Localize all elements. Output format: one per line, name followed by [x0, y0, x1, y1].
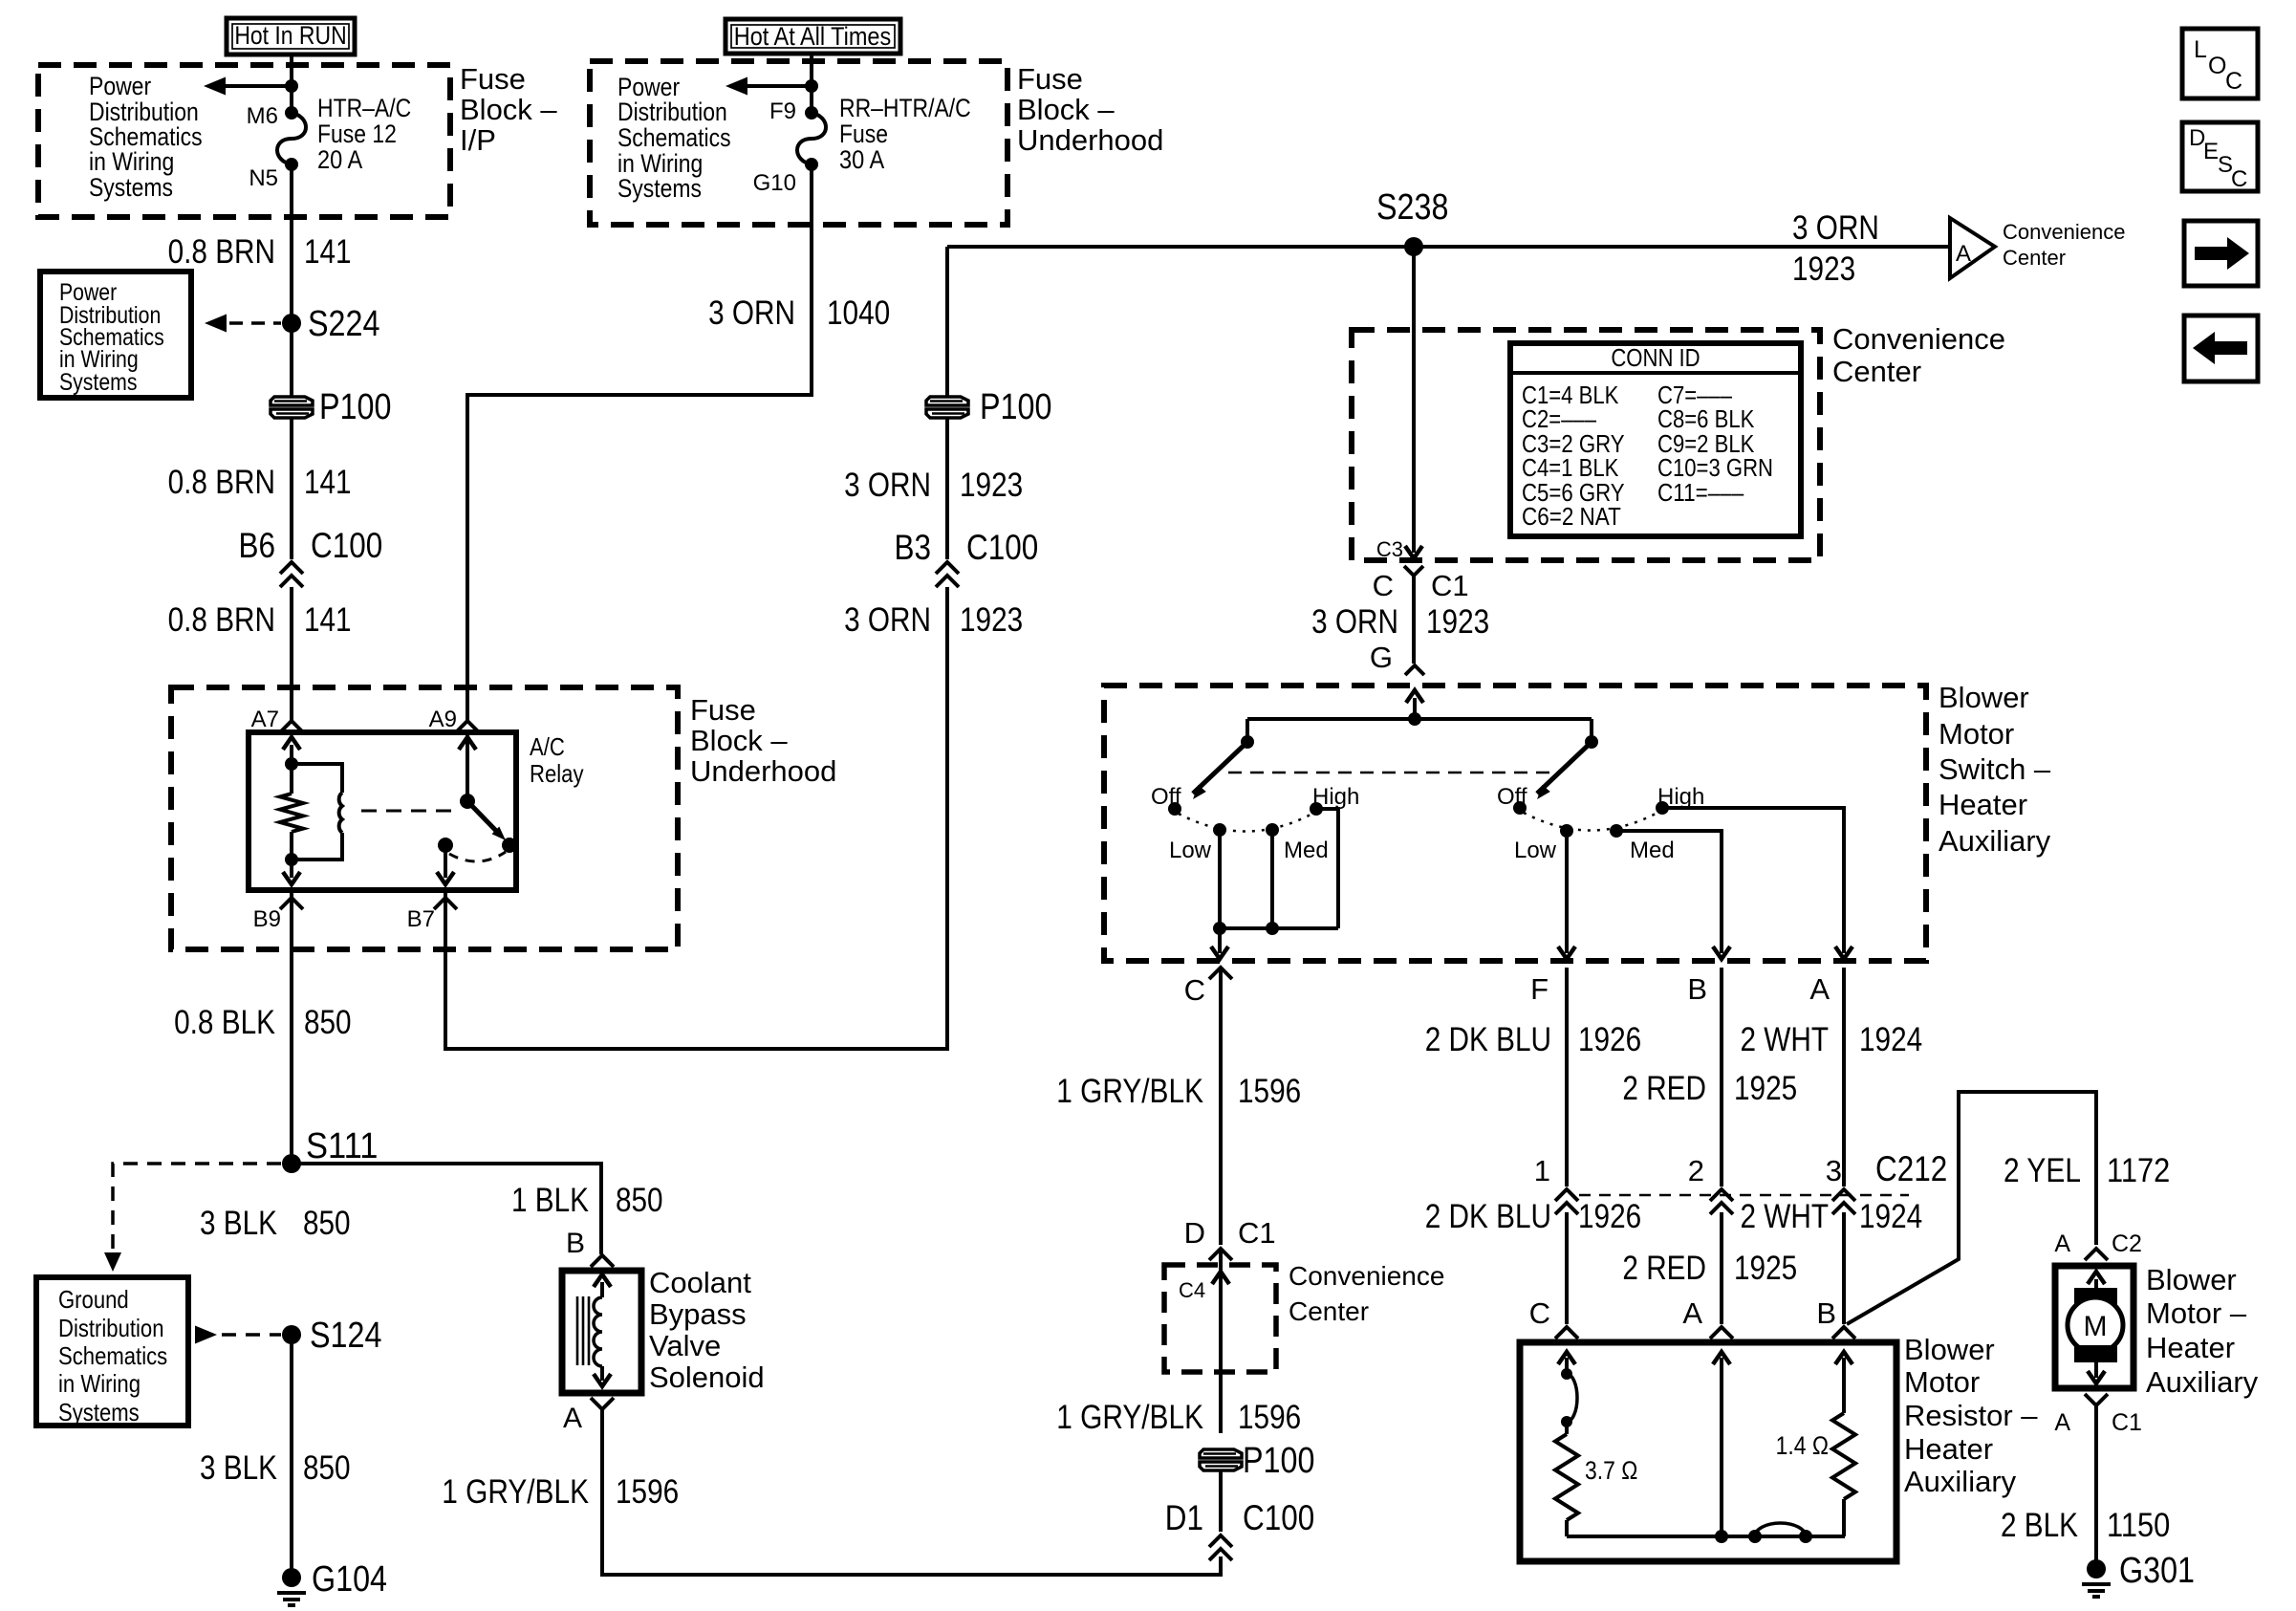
wire: C212-3 to resistor B [1842, 1212, 1846, 1324]
svg-text:2: 2 [1688, 1154, 1704, 1187]
svg-text:Heater: Heater [1904, 1432, 1993, 1466]
motor brush upper [2074, 1288, 2117, 1305]
pin B6 / connector C100 label [239, 526, 383, 565]
svg-text:N5: N5 [249, 165, 278, 191]
svg-text:1596: 1596 [616, 1473, 679, 1511]
svg-text:1 GRY/BLK: 1 GRY/BLK [1056, 1073, 1203, 1110]
motor armature M [2068, 1297, 2123, 1353]
svg-text:S238: S238 [1376, 187, 1448, 228]
pin label C3 [1376, 537, 1403, 561]
svg-text:A: A [1809, 972, 1830, 1006]
svg-text:D: D [1184, 1216, 1205, 1250]
right Med contact [1610, 824, 1623, 838]
power label box: Hot In RUN [227, 18, 355, 54]
svg-text:Block –: Block – [460, 93, 557, 126]
relay pin B7 arrow [437, 845, 454, 884]
svg-text:2 WHT: 2 WHT [1741, 1198, 1830, 1235]
svg-text:1925: 1925 [1734, 1070, 1797, 1107]
svg-text:1.4 Ω: 1.4 Ω [1776, 1431, 1829, 1460]
label S224 [308, 304, 379, 344]
blower motor box [2055, 1266, 2134, 1388]
svg-text:C4: C4 [1179, 1278, 1205, 1302]
svg-text:2 RED: 2 RED [1622, 1070, 1706, 1107]
node: feed junction underhood [805, 79, 818, 93]
wire: P100 to C100 [290, 418, 293, 559]
svg-text:850: 850 [304, 1004, 352, 1041]
svg-text:Coolant: Coolant [649, 1266, 751, 1299]
terminal N5 dot [285, 158, 298, 171]
wire label 3 ORN 1923 (below C100) [844, 601, 1023, 639]
label P100 (left) [319, 387, 391, 427]
wire: C212-2 to resistor A [1720, 1212, 1723, 1324]
svg-text:Auxiliary: Auxiliary [1939, 824, 2051, 858]
left Low wire [1218, 830, 1222, 928]
pin B3 / connector C100 label [895, 528, 1039, 567]
note: Power Distribution Schematics in Wiring Systems (fuse block I/P) [89, 72, 203, 202]
svg-text:Motor: Motor [1939, 717, 2014, 751]
svg-text:Power: Power [89, 72, 151, 100]
left bar node 1 [1213, 922, 1226, 935]
svg-text:C1: C1 [1431, 569, 1469, 602]
label P100 (bottom) [1243, 1441, 1314, 1481]
svg-text:Med: Med [1630, 838, 1675, 863]
right position arc [1524, 813, 1657, 831]
component label: Coolant Bypass Valve Solenoid [649, 1266, 765, 1394]
resistor bottom rail [1567, 1535, 1845, 1538]
svg-text:P100: P100 [1243, 1441, 1314, 1481]
resistor pin A wire [1713, 1352, 1730, 1536]
wire: resistor B to blower motor 2 YEL [1847, 1092, 2096, 1324]
svg-text:E: E [2203, 139, 2219, 164]
wire: switch F to C212-1 [1565, 968, 1569, 1186]
pin label A (switch) [1809, 972, 1830, 1006]
right pivot dot [1585, 735, 1598, 749]
connector C212 chevrons B [1710, 1189, 1733, 1214]
svg-text:P100: P100 [980, 387, 1051, 427]
svg-text:Low: Low [1169, 838, 1212, 863]
svg-text:C2: C2 [2112, 1230, 2142, 1257]
svg-text:Systems: Systems [89, 173, 173, 202]
dashed reference arrow to S124 [195, 1326, 281, 1344]
wire label 3 ORN 1923 (above C100) [844, 467, 1023, 504]
svg-text:Heater: Heater [2146, 1331, 2235, 1364]
wire label 2 DK BLU 1926 (upper) [1425, 1021, 1642, 1058]
right High wire (A) [1662, 808, 1852, 959]
svg-text:Fuse: Fuse [690, 693, 756, 727]
note: Power Distribution Schematics in Wiring Systems (underhood) [617, 73, 731, 203]
solenoid core bars [577, 1296, 589, 1365]
connector chevron B9 [280, 898, 303, 909]
svg-text:Systems: Systems [59, 369, 138, 396]
svg-text:Auxiliary: Auxiliary [2146, 1365, 2259, 1399]
resistor thermal limiter [1561, 1368, 1577, 1427]
pin label A9 [429, 707, 457, 732]
left pivot dot [1241, 735, 1254, 749]
label S238 [1376, 187, 1448, 228]
pin C / connector C1 label [1373, 569, 1469, 602]
relay coil bottom node [285, 853, 298, 866]
right Low wire (F) [1558, 831, 1575, 959]
wire: N5 down to S224 [290, 164, 293, 323]
svg-text:0.8 BLK: 0.8 BLK [174, 1004, 275, 1041]
svg-text:3.7 Ω: 3.7 Ω [1585, 1456, 1637, 1485]
svg-text:I/P: I/P [460, 123, 496, 157]
svg-text:Convenience: Convenience [2003, 220, 2125, 244]
svg-text:1 BLK: 1 BLK [511, 1182, 589, 1219]
svg-text:1925: 1925 [1734, 1250, 1797, 1287]
right pivot stub [1590, 719, 1593, 742]
svg-text:3 ORN: 3 ORN [708, 294, 795, 332]
wire: switch A to C212-3 [1842, 968, 1846, 1186]
conn id rows left [1522, 381, 1625, 531]
grommet P100 (bottom) [1200, 1449, 1242, 1470]
label Low (left) [1169, 838, 1212, 863]
relay switch dashed throw arc [449, 852, 506, 861]
left High contact [1310, 802, 1323, 816]
svg-text:Auxiliary: Auxiliary [1904, 1465, 2017, 1498]
wire label 1923 (convenience center feed) [1792, 250, 1855, 288]
svg-text:C1: C1 [2112, 1409, 2142, 1436]
connector chevron D C1 [1209, 1249, 1232, 1260]
label Med (right) [1630, 838, 1675, 863]
wire: C100 riser to S238 bus [945, 247, 949, 397]
svg-text:Bypass: Bypass [649, 1297, 747, 1331]
box label: Fuse Block - Underhood [690, 693, 836, 788]
svg-text:Block –: Block – [690, 724, 788, 757]
right Off contact [1513, 801, 1527, 815]
svg-text:1923: 1923 [1426, 603, 1489, 641]
wire: Hot At All Times to fuse [810, 54, 813, 113]
svg-text:B7: B7 [407, 906, 435, 932]
wire: S224 to P100 [290, 323, 293, 397]
terminal M6 dot [285, 106, 298, 120]
svg-text:P100: P100 [319, 387, 391, 427]
svg-text:0.8 BRN: 0.8 BRN [168, 233, 275, 271]
svg-text:Fuse: Fuse [460, 62, 526, 96]
svg-text:3 ORN: 3 ORN [844, 601, 931, 639]
svg-text:Motor –: Motor – [2146, 1296, 2247, 1330]
wire label 3 BLK 850 (upper) [200, 1205, 351, 1242]
grommet P100 (middle) [926, 397, 968, 418]
svg-text:S111: S111 [306, 1126, 378, 1166]
wire: C212-1 to resistor C [1565, 1212, 1569, 1324]
pin label F (switch) [1530, 972, 1549, 1006]
convenience center C4 dashed box [1164, 1265, 1276, 1372]
svg-text:A: A [2054, 1409, 2070, 1436]
connector chevron B solenoid [591, 1255, 614, 1267]
relay resistor element [280, 764, 303, 860]
label High (left) [1312, 784, 1359, 810]
left pivot stub [1245, 719, 1249, 742]
svg-text:C11=–––: C11=––– [1657, 478, 1744, 507]
convenience center dashed box [1352, 330, 1820, 560]
wire: S238 horizontal bus [947, 245, 1950, 249]
wire label 1 BLK 850 [511, 1182, 663, 1219]
switch gang dashed link [1228, 772, 1556, 774]
wire: Hot In RUN to fuse 12 [290, 54, 293, 113]
pin A / connector C1 label (motor) [2054, 1409, 2142, 1436]
svg-text:Ground: Ground [58, 1285, 129, 1314]
svg-text:L: L [2194, 36, 2207, 63]
fuse F12 HTR-A/C symbol [277, 113, 306, 164]
svg-text:Blower: Blower [1939, 681, 2029, 714]
svg-text:1: 1 [1534, 1154, 1550, 1187]
annotation: Convenience Center (arrow) [2003, 220, 2125, 270]
switch feed arrow [1406, 690, 1423, 719]
svg-text:Hot At All Times: Hot At All Times [734, 22, 892, 51]
pin label C4 [1179, 1278, 1205, 1302]
conn id rows right [1657, 381, 1773, 507]
nav icon forward arrow [2184, 221, 2258, 286]
label S111 [306, 1126, 378, 1166]
svg-text:2 DK BLU: 2 DK BLU [1425, 1021, 1551, 1058]
wire label 2 WHT 1924 (upper) [1741, 1021, 1923, 1058]
wire label 3 ORN 1040 [708, 294, 890, 332]
reference arrow (underhood) [726, 77, 812, 96]
label S124 [310, 1316, 381, 1356]
pin label B9 [253, 906, 281, 932]
svg-text:1926: 1926 [1578, 1198, 1641, 1235]
svg-text:in Wiring: in Wiring [89, 147, 174, 176]
connector chevron B7 [434, 898, 457, 909]
wire: P100 to D1 C100 [1219, 1470, 1223, 1532]
terminal F9 dot [805, 106, 818, 120]
component label: A/C Relay [530, 732, 584, 788]
svg-text:Systems: Systems [58, 1398, 140, 1426]
left Med wire [1270, 830, 1274, 928]
left common bar [1220, 926, 1338, 930]
svg-text:850: 850 [616, 1182, 663, 1219]
wire label 2 RED 1925 (upper) [1622, 1070, 1797, 1107]
svg-text:HTR–A/C: HTR–A/C [317, 94, 411, 122]
wire label 3 ORN 1923 (to switch) [1311, 603, 1489, 641]
pin label B (resistor) [1816, 1296, 1836, 1330]
svg-text:B: B [1816, 1296, 1836, 1330]
svg-text:Off: Off [1497, 784, 1527, 810]
connector C212 dashed link [1579, 1194, 1909, 1197]
svg-text:141: 141 [304, 233, 352, 271]
motor pin A arrow [2088, 1272, 2105, 1296]
wire: relay B9 down to S111 [290, 890, 293, 1164]
node: feed junction fuse block I/P [285, 79, 298, 93]
svg-text:C100: C100 [311, 526, 382, 565]
svg-text:C1: C1 [1238, 1216, 1276, 1250]
pin label G10 [753, 170, 796, 196]
svg-text:Block –: Block – [1017, 93, 1115, 126]
rail node A [1715, 1530, 1728, 1543]
wire: S238 into convenience center C3 [1405, 247, 1422, 558]
ground G104 [277, 1568, 306, 1605]
svg-text:C6=2 NAT: C6=2 NAT [1522, 502, 1621, 531]
svg-text:Center: Center [1832, 355, 1921, 388]
svg-text:C100: C100 [1243, 1498, 1314, 1537]
svg-text:1924: 1924 [1859, 1021, 1922, 1058]
svg-text:Schematics: Schematics [617, 123, 731, 152]
svg-text:D1: D1 [1165, 1498, 1203, 1537]
terminal G10 dot [805, 158, 818, 171]
wire: C100 to relay A7 [290, 587, 293, 720]
value label: HTR-A/C Fuse 12 20 A [317, 94, 411, 174]
box label: Blower Motor Switch - Heater Auxiliary [1939, 681, 2051, 858]
resistor element 1.4 ohm [1832, 1413, 1855, 1536]
svg-text:30 A: 30 A [839, 145, 884, 174]
pin D / connector C1 label [1184, 1216, 1276, 1250]
resistor element 3.7 ohm [1555, 1422, 1578, 1536]
wire: solenoid A to C100 D1 [602, 1409, 1221, 1575]
svg-text:C100: C100 [966, 528, 1038, 567]
svg-text:Off: Off [1151, 784, 1181, 810]
pin label 2 (C212) [1688, 1154, 1704, 1187]
relay switch fixed contact dot [438, 838, 453, 853]
wire label 2 BLK 1150 [2001, 1507, 2170, 1544]
svg-text:C: C [1373, 569, 1394, 602]
svg-text:C: C [1184, 973, 1205, 1007]
reference box: Ground Distribution Schematics in Wiring Systems [36, 1277, 188, 1426]
connector chevron resistor C [1555, 1327, 1578, 1339]
svg-text:O: O [2208, 53, 2226, 79]
svg-text:Blower: Blower [2146, 1263, 2237, 1296]
connector chevron A9 [456, 721, 479, 732]
power label box: Hot At All Times [726, 19, 900, 54]
svg-text:M6: M6 [247, 103, 278, 129]
svg-text:1040: 1040 [827, 294, 890, 332]
svg-text:1596: 1596 [1238, 1399, 1301, 1436]
motor brush lower [2074, 1345, 2117, 1362]
left bar node 2 [1266, 922, 1279, 935]
svg-text:1926: 1926 [1578, 1021, 1641, 1058]
label Off (left) [1151, 784, 1181, 810]
svg-text:20 A: 20 A [317, 145, 362, 174]
svg-text:1923: 1923 [1792, 250, 1855, 288]
connector fork A solenoid [591, 1398, 614, 1409]
svg-text:High: High [1657, 784, 1704, 810]
svg-text:G: G [1370, 641, 1393, 674]
pin A / connector C2 label (motor) [2054, 1230, 2142, 1257]
pin label 1 (C212) [1534, 1154, 1550, 1187]
pin label 3 (C212) [1826, 1154, 1842, 1187]
pin label F9 [769, 98, 796, 124]
svg-text:C3: C3 [1376, 537, 1403, 561]
svg-text:850: 850 [303, 1449, 351, 1487]
svg-text:Low: Low [1514, 838, 1557, 863]
svg-text:Med: Med [1284, 838, 1329, 863]
connector chevron A7 [280, 721, 303, 732]
svg-text:Relay: Relay [530, 759, 584, 788]
wire label 2 RED 1925 (lower) [1622, 1250, 1797, 1287]
splice S124 [282, 1325, 301, 1344]
svg-text:Underhood: Underhood [690, 754, 836, 788]
nav icon DESC [2182, 122, 2258, 192]
fuse block underhood top dashed box [590, 61, 1007, 225]
svg-text:Schematics: Schematics [58, 1341, 167, 1370]
pin label A (resistor) [1682, 1296, 1702, 1330]
connector chevron C out [1209, 968, 1232, 979]
ground G301 [2082, 1559, 2111, 1597]
relay pin A7 arrow [283, 737, 300, 764]
svg-text:RR–HTR/A/C: RR–HTR/A/C [839, 94, 971, 122]
motor pin A2 arrow [2088, 1354, 2105, 1383]
pin label G [1370, 641, 1393, 674]
rail jumper arc [1755, 1523, 1806, 1536]
splice S111 [282, 1154, 301, 1173]
left Low contact [1213, 823, 1226, 837]
svg-text:B: B [1687, 972, 1707, 1006]
svg-text:Center: Center [2003, 246, 2066, 270]
svg-text:Convenience: Convenience [1289, 1261, 1444, 1291]
solenoid pin B arrow [594, 1274, 611, 1297]
wire: C1 to switch G [1412, 574, 1416, 664]
svg-text:S124: S124 [310, 1316, 381, 1356]
wire: switch B to C212-2 [1720, 968, 1723, 1186]
wire label 2 WHT 1924 (lower) [1741, 1198, 1923, 1235]
svg-text:2 YEL: 2 YEL [2004, 1152, 2081, 1189]
fuse RR-HTR/A/C symbol [797, 113, 826, 164]
value label 3.7 ohm [1585, 1456, 1637, 1485]
label High (right) [1657, 784, 1704, 810]
svg-text:A/C: A/C [530, 732, 565, 761]
svg-text:F9: F9 [769, 98, 796, 124]
relay coil branch [292, 764, 342, 860]
svg-text:Fuse 12: Fuse 12 [317, 120, 397, 148]
connector chevron resistor A [1710, 1327, 1733, 1339]
box label: Fuse Block - Underhood (top) [1017, 62, 1163, 157]
svg-text:3: 3 [1826, 1154, 1842, 1187]
resistor pin C arrow [1558, 1352, 1575, 1374]
svg-text:G10: G10 [753, 170, 796, 196]
svg-text:A: A [1956, 241, 1971, 267]
svg-text:B9: B9 [253, 906, 281, 932]
svg-text:2 BLK: 2 BLK [2001, 1507, 2078, 1544]
box label: Blower Motor Resistor - Heater Auxiliary [1904, 1333, 2038, 1498]
svg-text:High: High [1312, 784, 1359, 810]
svg-text:Fuse: Fuse [839, 120, 888, 148]
relay actuating dashed link [361, 810, 461, 813]
pin label B7 [407, 906, 435, 932]
connector chevron G [1405, 665, 1424, 675]
svg-text:Systems: Systems [617, 174, 702, 203]
blower motor switch dashed box [1104, 686, 1926, 961]
connector fork C C1 [1404, 566, 1423, 576]
wire: S111 to coolant solenoid B [292, 1164, 601, 1254]
svg-text:C: C [1529, 1296, 1550, 1330]
svg-text:141: 141 [304, 464, 352, 501]
svg-text:Valve: Valve [649, 1329, 721, 1362]
switch feed rail [1247, 717, 1592, 721]
relay coil top node [285, 757, 298, 771]
svg-text:B: B [566, 1228, 585, 1259]
left position arc [1179, 814, 1312, 832]
svg-text:2 RED: 2 RED [1622, 1250, 1706, 1287]
svg-text:in Wiring: in Wiring [58, 1369, 141, 1398]
svg-text:1923: 1923 [960, 601, 1023, 639]
svg-text:141: 141 [304, 601, 352, 639]
svg-text:Motor: Motor [1904, 1365, 1980, 1399]
connector chevron motor C2 [2085, 1249, 2108, 1260]
nav icon back arrow [2184, 316, 2258, 381]
dashed reference arrow from S224 [205, 315, 281, 333]
svg-text:Distribution: Distribution [58, 1314, 164, 1342]
grommet P100 (left) [271, 397, 313, 418]
fuse block I/P dashed box [38, 65, 450, 217]
connector C100 double chevron (left) [280, 562, 303, 587]
wire label 3 ORN (convenience center feed) [1792, 209, 1879, 247]
relay switch feed from A9 [459, 732, 476, 801]
reference arrow (fuse block I/P) [204, 77, 292, 96]
svg-text:Convenience: Convenience [1832, 322, 2005, 356]
right High contact [1656, 801, 1669, 815]
left High wire [1316, 809, 1338, 928]
svg-text:1924: 1924 [1859, 1198, 1922, 1235]
